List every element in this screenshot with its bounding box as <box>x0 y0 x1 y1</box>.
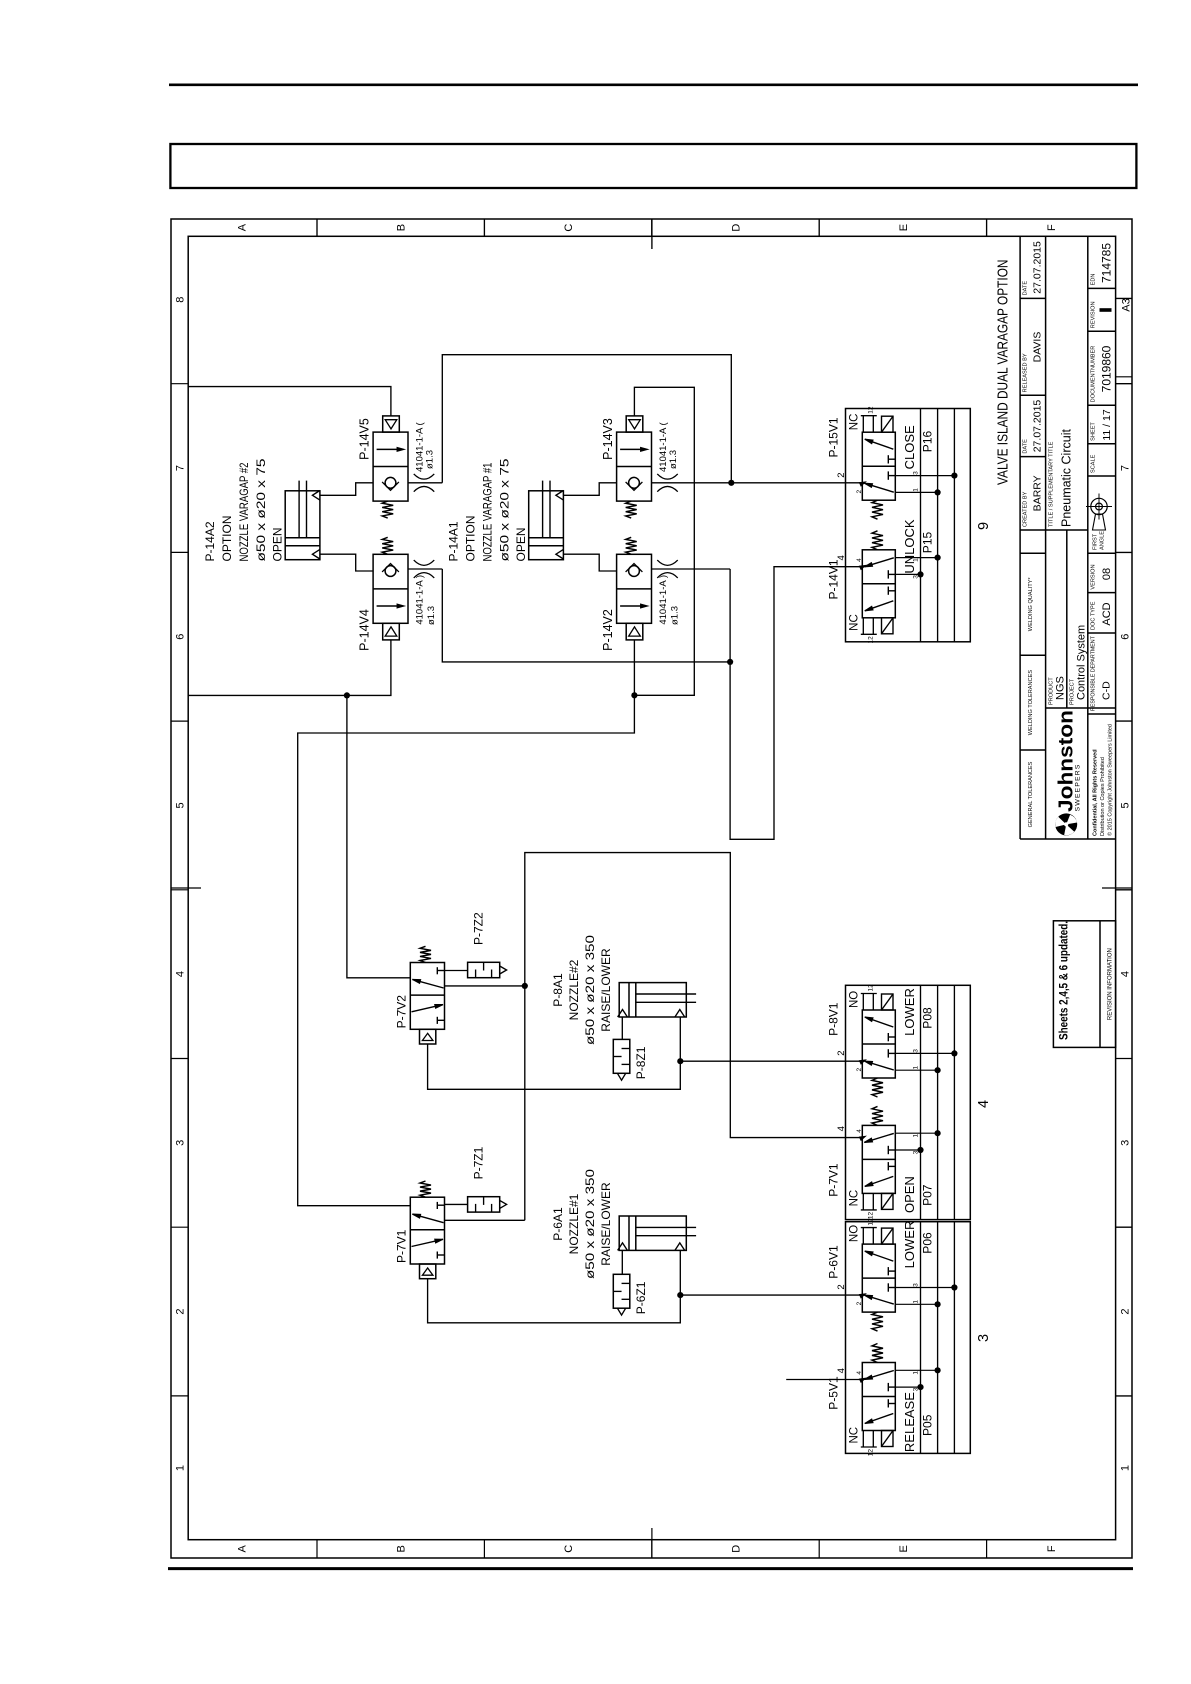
svg-text:1: 1 <box>175 1465 187 1471</box>
wire net P-14V4 to junction B <box>442 569 730 662</box>
solenoid valve P-14V1 <box>862 550 895 618</box>
svg-text:NOZZLE VARAGAP #2: NOZZLE VARAGAP #2 <box>237 462 251 561</box>
wire junction C to P-8A1 port <box>679 1017 681 1061</box>
svg-text:P-7Z1: P-7Z1 <box>472 1146 486 1179</box>
port 4 stub to P-5V1 <box>786 1379 862 1381</box>
svg-text:OPEN: OPEN <box>902 1176 917 1213</box>
restrictor P-7Z1 <box>445 1203 468 1205</box>
svg-text:4: 4 <box>836 555 847 560</box>
svg-text:12: 12 <box>867 1218 874 1226</box>
svg-text:4: 4 <box>836 1368 847 1373</box>
junction D dot (P-6A1 feed) <box>677 1292 683 1298</box>
svg-text:D: D <box>731 1545 743 1553</box>
solenoid valve P-6V1 <box>862 1244 895 1312</box>
junction A dot <box>728 480 734 486</box>
wire net P-14V5 to junction A <box>442 355 731 483</box>
check valve P-14V2 <box>617 554 652 623</box>
svg-text:DAVIS: DAVIS <box>1032 332 1044 363</box>
restrictor P-8Z1 <box>613 1039 630 1073</box>
svg-text:41041-1-A ): 41041-1-A ) <box>658 575 669 625</box>
solenoid valve P-5V1 <box>862 1363 895 1431</box>
svg-text:P-6Z1: P-6Z1 <box>634 1281 648 1314</box>
title block <box>1019 236 1021 839</box>
svg-text:12: 12 <box>867 1212 874 1220</box>
svg-text:41041-1-A ): 41041-1-A ) <box>415 575 426 625</box>
valve island group 9 box <box>846 409 971 642</box>
orifice P-14V3 output <box>652 482 732 484</box>
wire P-8Z1 to P-8A1 top port <box>621 1017 623 1039</box>
svg-text:4: 4 <box>836 1126 847 1131</box>
svg-text:1: 1 <box>913 1066 920 1070</box>
svg-text:D: D <box>731 224 743 232</box>
svg-text:NOZZLE#2: NOZZLE#2 <box>567 959 581 1020</box>
port 2 entry P-6V1 <box>860 1294 866 1298</box>
svg-text:LOWER: LOWER <box>902 988 917 1036</box>
svg-text:Confidential, All Rights Reser: Confidential, All Rights Reserved <box>1093 749 1099 836</box>
svg-text:7: 7 <box>1120 465 1132 471</box>
svg-text:3: 3 <box>175 1140 187 1146</box>
svg-text:P-7V1: P-7V1 <box>827 1163 841 1197</box>
svg-text:08: 08 <box>1101 568 1113 580</box>
svg-text:VALVE ISLAND DUAL VARAGAP OPTI: VALVE ISLAND DUAL VARAGAP OPTION <box>995 260 1012 486</box>
svg-text:FIRST: FIRST <box>1093 533 1099 550</box>
wire P-6Z1 to P-6A1 top port <box>621 1250 623 1274</box>
svg-text:LOWER: LOWER <box>902 1221 917 1269</box>
svg-text:WELDING TOLERANCES: WELDING TOLERANCES <box>1028 670 1034 736</box>
svg-text:OPTION: OPTION <box>464 515 478 561</box>
wire P-14A1 cap-end port to P-14V2 <box>563 554 616 571</box>
wire P-14A1 rod-end port to P-14V3 <box>563 483 616 496</box>
svg-text:2: 2 <box>1120 1308 1132 1314</box>
svg-text:P-7Z2: P-7Z2 <box>472 912 486 945</box>
svg-text:CLOSE: CLOSE <box>902 425 917 469</box>
wire P-14A2 cap-end port to P-14V4 <box>320 554 373 571</box>
svg-text:4: 4 <box>1120 971 1132 977</box>
svg-text:3: 3 <box>913 471 920 475</box>
svg-text:P-15V1: P-15V1 <box>827 417 841 457</box>
svg-text:P05: P05 <box>921 1414 935 1436</box>
svg-text:ACD: ACD <box>1101 602 1113 625</box>
svg-text:E: E <box>898 1545 910 1552</box>
port 2 entry P-8V1 <box>860 1060 866 1064</box>
svg-text:1: 1 <box>913 1371 920 1375</box>
svg-text:1: 1 <box>913 1134 920 1138</box>
cylinder P-8A1 <box>619 983 686 1017</box>
svg-text:P07: P07 <box>921 1184 935 1206</box>
svg-text:ø1.3: ø1.3 <box>668 450 679 469</box>
svg-text:4: 4 <box>976 1100 992 1108</box>
svg-text:1: 1 <box>913 1300 920 1304</box>
solenoid valve P-8V1 <box>862 1010 895 1078</box>
svg-text:CREATED BY: CREATED BY <box>1023 491 1029 527</box>
svg-text:ø1.3: ø1.3 <box>670 606 681 625</box>
cylinder P-6A1 <box>619 1216 686 1250</box>
svg-text:A: A <box>237 223 249 231</box>
svg-text:2: 2 <box>836 472 847 477</box>
svg-text:ø1.3: ø1.3 <box>426 606 437 625</box>
valve P-7V1 <box>410 1197 444 1264</box>
junction C dot (P-8A1 feed) <box>677 1058 683 1064</box>
wire junction C to P-8V1 port 2 <box>680 1060 862 1062</box>
svg-text:P-8V1: P-8V1 <box>827 1002 841 1036</box>
svg-text:RELEASE: RELEASE <box>902 1392 917 1452</box>
svg-text:1: 1 <box>1120 1465 1132 1471</box>
valve P-7V2 <box>410 963 444 1030</box>
restrictor P-6Z1 <box>613 1274 630 1308</box>
svg-text:12: 12 <box>867 1449 874 1457</box>
svg-text:9: 9 <box>976 522 992 530</box>
svg-text:Sheets 2,4,5 & 6 updated.: Sheets 2,4,5 & 6 updated. <box>1059 921 1071 1040</box>
svg-text:BARRY: BARRY <box>1032 475 1044 511</box>
svg-text:2: 2 <box>856 490 863 494</box>
svg-text:2: 2 <box>175 1308 187 1314</box>
svg-text:E: E <box>898 224 910 231</box>
svg-text:P-5V1: P-5V1 <box>827 1376 841 1410</box>
svg-text:F: F <box>1046 1545 1058 1552</box>
svg-text:RELEASED BY: RELEASED BY <box>1023 353 1029 392</box>
svg-text:3: 3 <box>913 1283 920 1287</box>
svg-text:© 2015 Copyright Johnston Swee: © 2015 Copyright Johnston Sweepers Limit… <box>1107 724 1114 836</box>
solenoid valve P-15V1 <box>862 432 895 500</box>
svg-text:ø50 x ø20 x 75: ø50 x ø20 x 75 <box>498 458 512 561</box>
revision note box <box>1053 921 1115 1048</box>
svg-text:NC: NC <box>849 1190 861 1207</box>
svg-text:ANGLE: ANGLE <box>1100 531 1106 550</box>
svg-text:P-14V3: P-14V3 <box>601 418 615 460</box>
svg-text:NOZZLE VARAGAP #1: NOZZLE VARAGAP #1 <box>481 462 495 561</box>
orifice P-14V4 output <box>408 568 442 570</box>
svg-text:P08: P08 <box>921 1007 935 1029</box>
svg-text:1: 1 <box>913 488 920 492</box>
svg-text:7019860: 7019860 <box>1100 345 1114 392</box>
exhaust line P-14V5 to sheet edge <box>188 387 391 416</box>
svg-text:NC: NC <box>849 1427 861 1444</box>
svg-text:3: 3 <box>913 1387 920 1391</box>
cylinder P-14A2 <box>285 491 320 560</box>
wire P-14V2 exhaust to P-7V1 pilot <box>298 640 635 1206</box>
svg-text:6: 6 <box>175 634 187 640</box>
svg-text:2: 2 <box>856 1068 863 1072</box>
svg-text:P15: P15 <box>921 532 935 554</box>
svg-text:ø1.3: ø1.3 <box>425 450 436 469</box>
svg-text:WELDING QUALITY*: WELDING QUALITY* <box>1028 577 1034 632</box>
wire P-7V2 outlet to P-8A1 junction <box>428 1044 681 1089</box>
svg-text:GENERAL TOLERANCES: GENERAL TOLERANCES <box>1028 761 1034 827</box>
svg-text:5: 5 <box>175 802 187 808</box>
svg-text:REVISION INFORMATION: REVISION INFORMATION <box>1108 948 1114 1020</box>
svg-text:C: C <box>563 224 575 232</box>
svg-text:3: 3 <box>913 575 920 579</box>
svg-text:NO: NO <box>849 991 861 1008</box>
svg-text:P-14A1: P-14A1 <box>447 521 461 561</box>
svg-text:3: 3 <box>913 1049 920 1053</box>
Johnston Sweepers logo <box>1055 710 1082 835</box>
svg-text:SWEEPERS: SWEEPERS <box>1075 764 1082 812</box>
svg-text:UNLOCK: UNLOCK <box>902 519 917 574</box>
net W2 from P-7V1/P-7V2 to island 4 port 4 <box>525 853 863 1221</box>
wire P-7V2 port to net W2 <box>445 985 525 987</box>
wire net B to P-14V1 port 4 <box>729 569 731 662</box>
svg-text:P-8A1: P-8A1 <box>551 973 565 1007</box>
svg-text:4: 4 <box>175 971 187 977</box>
svg-text:A3: A3 <box>1121 298 1133 311</box>
svg-text:P-6V1: P-6V1 <box>827 1245 841 1279</box>
wire junction D to P-6V1 port 2 <box>680 1294 862 1296</box>
svg-text:Pneumatic Circuit: Pneumatic Circuit <box>1060 429 1074 527</box>
svg-text:B: B <box>396 1545 408 1552</box>
junction to pilot of P-7V2 <box>344 692 350 698</box>
svg-text:714785: 714785 <box>1100 243 1114 283</box>
svg-text:ø50 x ø20 x 350: ø50 x ø20 x 350 <box>583 1169 597 1279</box>
svg-text:3: 3 <box>976 1334 992 1342</box>
junction B dot <box>727 659 733 665</box>
solenoid valve P-7V1 island <box>862 1125 895 1193</box>
svg-text:VERSION: VERSION <box>1091 564 1097 589</box>
svg-text:A: A <box>237 1544 249 1552</box>
svg-text:P-8Z1: P-8Z1 <box>634 1046 648 1079</box>
port 2 entry P-15V1 <box>860 482 866 486</box>
svg-text:P-6A1: P-6A1 <box>551 1207 565 1241</box>
wire P-7V1 outlet to P-6A1 junction <box>428 1279 681 1323</box>
check valve P-14V3 <box>617 432 652 501</box>
svg-text:RAISE/LOWER: RAISE/LOWER <box>599 948 613 1032</box>
svg-text:OPEN: OPEN <box>514 527 528 561</box>
svg-text:SCALE: SCALE <box>1091 454 1097 473</box>
svg-text:C-D: C-D <box>1101 681 1113 700</box>
svg-text:2: 2 <box>836 1284 847 1289</box>
svg-text:RESPONSIBLE DEPARTMENT: RESPONSIBLE DEPARTMENT <box>1091 635 1097 711</box>
first angle projection symbol <box>1086 494 1112 531</box>
svg-text:NC: NC <box>849 414 861 431</box>
svg-text:B: B <box>396 224 408 231</box>
svg-text:REVISION: REVISION <box>1091 301 1097 328</box>
svg-text:P-14V1: P-14V1 <box>827 559 841 599</box>
svg-text:P-14A2: P-14A2 <box>203 521 217 561</box>
svg-text:OPEN: OPEN <box>271 527 285 561</box>
svg-text:DOC TYPE: DOC TYPE <box>1091 601 1097 630</box>
svg-text:4: 4 <box>856 1129 863 1133</box>
wire P-14V4 exhaust to sheet edge <box>188 640 391 696</box>
svg-text:P16: P16 <box>921 431 935 453</box>
restrictor P-7Z2 <box>445 970 468 972</box>
wire junction D to P-6A1 port <box>679 1250 681 1295</box>
svg-text:2: 2 <box>856 1301 863 1305</box>
svg-text:11 / 17: 11 / 17 <box>1101 409 1113 440</box>
svg-text:RAISE/LOWER: RAISE/LOWER <box>599 1182 613 1266</box>
svg-text:27.07.2015: 27.07.2015 <box>1032 400 1044 453</box>
svg-text:NOZZLE#1: NOZZLE#1 <box>567 1193 581 1254</box>
svg-text:EDN: EDN <box>1091 274 1097 286</box>
svg-text:6: 6 <box>1120 634 1132 640</box>
svg-text:4: 4 <box>856 558 863 562</box>
svg-text:OPTION: OPTION <box>220 515 234 561</box>
svg-text:Distribution or Copies Prohibi: Distribution or Copies Prohibited <box>1100 757 1106 836</box>
svg-text:C: C <box>563 1545 575 1553</box>
svg-text:P-14V4: P-14V4 <box>358 609 372 651</box>
svg-text:2: 2 <box>836 1050 847 1055</box>
svg-text:5: 5 <box>1120 802 1132 808</box>
check valve P-14V4 <box>373 554 408 623</box>
valve island group 4 box <box>846 985 971 1219</box>
svg-text:P06: P06 <box>921 1232 935 1254</box>
svg-text:DATE: DATE <box>1023 281 1029 296</box>
svg-text:TITLE / SUPPLEMENTARY TITLE: TITLE / SUPPLEMENTARY TITLE <box>1049 441 1055 527</box>
svg-text:DATE: DATE <box>1023 439 1029 454</box>
svg-text:P-7V1: P-7V1 <box>394 1229 408 1263</box>
svg-text:3: 3 <box>1120 1140 1132 1146</box>
svg-text:NC: NC <box>849 614 861 631</box>
svg-text:NGS: NGS <box>1055 676 1067 700</box>
svg-text:SHEET: SHEET <box>1091 422 1097 441</box>
port 4 entry P-14V1 <box>860 566 866 570</box>
svg-text:12: 12 <box>867 984 874 992</box>
orifice P-14V5 output <box>408 482 442 484</box>
svg-text:7: 7 <box>175 465 187 471</box>
svg-text:Control System: Control System <box>1076 625 1088 700</box>
svg-text:ø50 x ø20 x 350: ø50 x ø20 x 350 <box>583 935 597 1045</box>
wire junction A to P-15V1 port 2 <box>731 482 862 484</box>
valve island group 3 box <box>846 1222 971 1454</box>
wire P-14V3 exhaust to junction E <box>634 387 694 695</box>
cylinder P-14A1 <box>529 491 564 560</box>
svg-text:ø50 x ø20 x 75: ø50 x ø20 x 75 <box>254 458 268 561</box>
orifice P-14V2 output <box>652 568 731 570</box>
svg-text:P-14V5: P-14V5 <box>358 418 372 460</box>
svg-text:DOCUMENTNUMBER: DOCUMENTNUMBER <box>1091 346 1097 403</box>
svg-text:P-14V2: P-14V2 <box>601 609 615 651</box>
junction E dot <box>631 692 637 698</box>
check valve P-14V5 <box>373 432 408 501</box>
wire P-7V1 port to net W2 <box>445 1219 525 1221</box>
svg-text:27.07.2015: 27.07.2015 <box>1032 241 1044 294</box>
svg-text:P-7V2: P-7V2 <box>394 995 408 1029</box>
wire P-14A2 rod-end port to P-14V5 <box>320 483 373 496</box>
junction W2 dot at P-7V2 branch <box>522 983 528 989</box>
svg-text:F: F <box>1046 224 1058 231</box>
svg-text:8: 8 <box>175 297 187 303</box>
svg-text:12: 12 <box>867 636 874 644</box>
svg-text:NO: NO <box>849 1225 861 1242</box>
port 4 entry island P-7V1 <box>860 1136 866 1140</box>
svg-text:12: 12 <box>867 406 874 414</box>
svg-text:3: 3 <box>913 1150 920 1154</box>
svg-text:4: 4 <box>856 1371 863 1375</box>
